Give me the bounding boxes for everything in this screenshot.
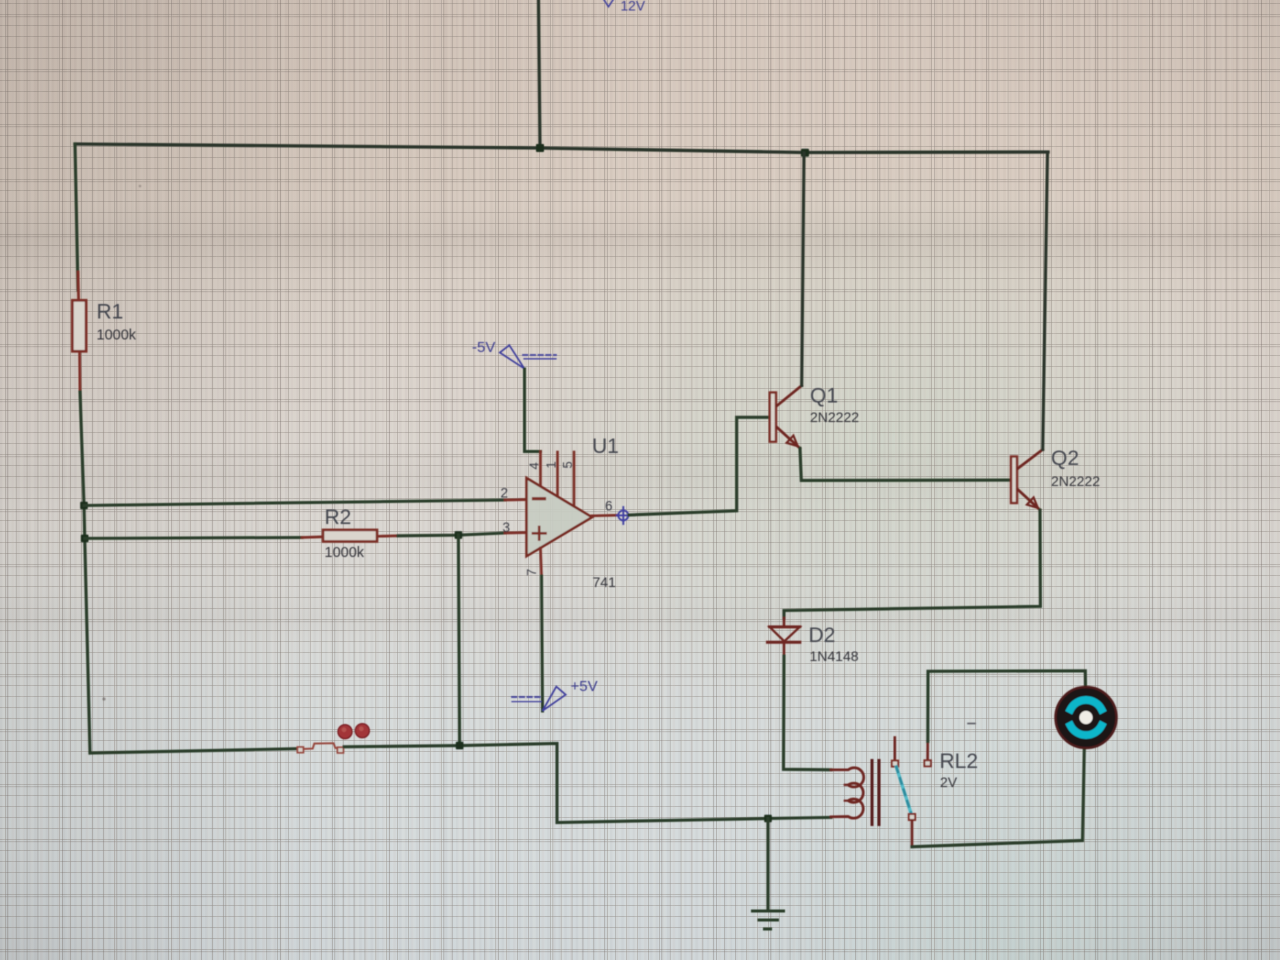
wire top bus [75,144,1048,153]
wire ground drop [766,819,769,911]
junction at 12V / top bus [536,144,544,152]
svg-text:-5V: -5V [472,339,495,356]
relay RL2 moving contact (cyan lever) [896,767,911,814]
svg-text:+5V: +5V [571,678,598,695]
svg-text:1: 1 [543,461,558,468]
ground symbol [753,911,784,929]
pin 2 stub [505,498,527,501]
svg-text:R1: R1 [97,301,124,324]
svg-text:1000k: 1000k [97,328,137,344]
wire pin2 net [84,500,505,506]
resistor R2 pins [302,535,323,538]
power terminal 12V (clipped at top) [603,0,614,7]
motor M body [1056,687,1117,748]
svg-text:U1: U1 [592,435,619,458]
transistor Q2 collector lead [1018,450,1043,469]
svg-text:R2: R2 [325,506,352,529]
svg-text:5: 5 [560,461,575,468]
svg-text:12V: 12V [621,0,646,14]
resistor R1 body [72,300,86,351]
relay RL2 fixed contact pad [924,760,930,766]
diode D2 anode stub [783,618,786,627]
wire bottom-left bus left part [90,749,297,753]
switch SW pad right [337,747,343,753]
wire 12V supply drop [539,0,541,148]
svg-text:3: 3 [503,520,511,535]
junction R2 net / feedback drop [455,531,463,539]
wire R1 bottom to lower-left corner [80,392,90,753]
relay RL2 coil [831,768,864,818]
svg-text:7: 7 [524,569,539,576]
relay RL2 core bars [871,761,874,825]
svg-text:D2: D2 [809,624,836,647]
wire Q1 collector riser [802,153,804,386]
wire left drop to R1 [75,144,78,290]
junction left bus / pin2 net [80,502,88,510]
motor M shaft hole [1079,711,1092,724]
dust speck mid [139,185,142,188]
svg-text:6: 6 [605,499,613,514]
power terminal +5V [512,687,566,711]
wire output net to Q1 base [629,417,769,515]
wire relay fixed contact up and over to motor [928,671,1086,742]
switch actuator red dot right [355,724,369,738]
svg-text:4: 4 [526,462,541,469]
diode D2 cathode stub [783,642,786,656]
resistor R1 pins [77,272,80,300]
diode D2 triangle [769,625,800,628]
svg-text:2V: 2V [940,774,958,790]
op-amp U1 output pin 6 stub [592,514,618,517]
switch SW pad left [297,747,303,753]
op-amp U1 minus symbol [534,497,545,500]
diode D2 cathode bar [768,641,800,644]
power terminal -5V [500,345,556,368]
wire pin 7 to +5V [542,576,543,711]
transistor Q2 base bar [1011,457,1017,504]
motor M stator arcs [1071,700,1102,709]
junction top bus / Q1 collector [801,149,809,157]
svg-text:1N4148: 1N4148 [810,648,859,664]
switch SW lever [303,743,337,749]
svg-text:Q2: Q2 [1051,447,1079,470]
op-amp U1 pin 4 stub [539,452,542,487]
node probe marker at pin 6 [617,507,630,524]
op-amp U1 pin 5 stub [573,452,576,506]
switch actuator red dot left [338,725,352,739]
wire motor bottom to relay throw [912,748,1084,847]
relay RL2 throw pad [909,814,915,820]
relay RL2 common pad [892,761,898,767]
wire Q2 collector riser [1043,152,1048,450]
op-amp U1 pin 7 stub [541,548,542,576]
artifact small dash [968,723,975,725]
svg-text:2: 2 [501,486,509,501]
wire feedback vertical drop [458,535,459,746]
junction feedback / bottom bus [456,742,464,750]
transistor Q1 base bar [770,393,776,442]
op-amp U1 body [527,478,593,556]
wire Q2 emitter down and across to D2 [784,510,1040,619]
op-amp U1 plus symbol [533,527,546,540]
junction bottom bus / ground drop [764,815,772,823]
relay RL2 throw pin stub [911,821,914,847]
wire R2 left net [85,536,302,540]
svg-text:2N2222: 2N2222 [1051,473,1100,489]
relay RL2 fixed contact pin [926,742,929,761]
svg-text:1000k: 1000k [325,545,365,561]
dust speck left [102,697,105,700]
transistor Q1 emitter lead with arrow [777,428,800,449]
svg-text:2N2222: 2N2222 [810,409,859,425]
svg-text:RL2: RL2 [940,750,979,773]
relay RL2 common pin stub [893,738,896,761]
resistor R2 body [323,530,377,542]
pin 3 stub [505,531,527,534]
svg-text:Q1: Q1 [810,385,838,408]
junction left bus / R2 net [81,535,89,543]
wire Q1 emitter to Q2 base [800,448,1011,480]
wire -5V to pin 4 [525,369,541,452]
wire bottom-left bus right part [344,744,831,823]
transistor Q2 emitter lead with arrow [1018,490,1040,511]
op-amp U1 pin 1 stub [556,452,559,497]
wire D2 to relay coil [784,656,832,770]
transistor Q1 collector lead [777,386,802,406]
svg-text:741: 741 [593,574,617,590]
wire R2 right to pin3 [398,533,505,536]
